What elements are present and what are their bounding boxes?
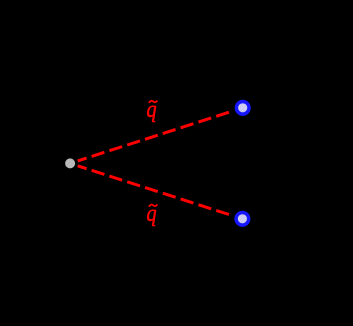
svg-text:q: q	[147, 95, 157, 122]
label: squark q-tilde (upper)	[147, 95, 158, 122]
wire: squark propagator lower (red dashed)	[78, 166, 230, 215]
wire: squark propagator upper (red dashed)	[78, 112, 230, 161]
label: squark q-tilde (lower)	[147, 199, 158, 226]
svg-text:q: q	[147, 199, 157, 226]
node: lower decay vertex (blue dot)	[234, 211, 250, 227]
node: production vertex (gray dot)	[65, 158, 75, 168]
node: upper decay vertex (blue dot)	[235, 100, 251, 116]
